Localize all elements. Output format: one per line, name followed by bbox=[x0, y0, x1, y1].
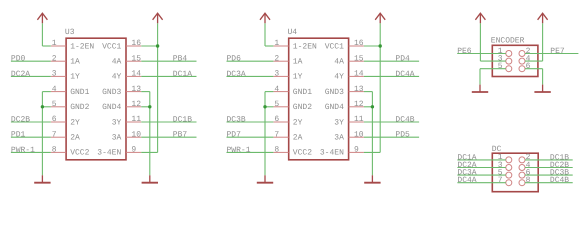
pin 6 circle (ENCODER) bbox=[519, 62, 531, 72]
pin 16 of U3 bbox=[126, 39, 141, 48]
ground symbol (ENCODER right) bbox=[534, 85, 550, 92]
svg-text:VCC2: VCC2 bbox=[293, 149, 312, 158]
pin 15 of U3 bbox=[126, 54, 141, 63]
svg-text:7: 7 bbox=[498, 176, 503, 185]
wire net PWR-1 bbox=[227, 151, 274, 153]
svg-text:VCC1: VCC1 bbox=[325, 42, 344, 51]
pin 1 of U3 bbox=[51, 39, 66, 48]
wire net DC1A bbox=[457, 159, 505, 161]
pin 16 of U4 bbox=[349, 39, 364, 48]
svg-text:ENCODER: ENCODER bbox=[491, 37, 525, 46]
svg-text:12: 12 bbox=[354, 100, 364, 109]
pin 11 of U4 bbox=[349, 115, 364, 124]
pin 5 circle (ENCODER) bbox=[498, 62, 512, 72]
svg-text:6: 6 bbox=[526, 62, 531, 71]
svg-text:GND1: GND1 bbox=[70, 88, 89, 97]
svg-text:1Y: 1Y bbox=[70, 73, 80, 82]
pin 6 circle (DC) bbox=[519, 168, 531, 178]
svg-text:10: 10 bbox=[354, 130, 364, 139]
svg-text:8: 8 bbox=[274, 146, 279, 155]
IC U4 body bbox=[289, 38, 349, 160]
ground symbol (U4 left) bbox=[257, 175, 273, 182]
pin 1 of U4 bbox=[273, 39, 288, 48]
IC U3 body bbox=[66, 38, 126, 160]
wire net DC4B bbox=[364, 121, 419, 123]
pin 6 of U4 bbox=[273, 115, 288, 124]
svg-text:11: 11 bbox=[354, 115, 364, 124]
svg-text:8: 8 bbox=[526, 176, 531, 185]
wire net PE6 bbox=[457, 53, 506, 55]
pin 2 circle (DC) bbox=[519, 153, 531, 163]
pin 11 of U3 bbox=[126, 115, 141, 124]
wire net DC2B bbox=[11, 121, 51, 123]
junction dot (U4 VCC1) bbox=[379, 44, 382, 47]
pin 4 of U4 bbox=[273, 85, 288, 94]
svg-text:4A: 4A bbox=[112, 58, 122, 67]
wire VCC to pin 1 (U4) bbox=[265, 45, 273, 47]
junction dot (U3 GND left) bbox=[41, 105, 44, 108]
wire GND vertical right (U3) bbox=[149, 92, 151, 176]
wire GND pin 5 (ENCODER) bbox=[480, 68, 506, 70]
svg-text:1-2EN: 1-2EN bbox=[293, 42, 317, 51]
svg-text:1A: 1A bbox=[70, 58, 80, 67]
pin 10 of U4 bbox=[349, 130, 364, 139]
svg-text:PWR-1: PWR-1 bbox=[11, 146, 35, 155]
wire GND vertical right (U4) bbox=[371, 92, 373, 176]
svg-text:PB4: PB4 bbox=[173, 55, 188, 64]
svg-text:1: 1 bbox=[274, 39, 279, 48]
svg-text:GND3: GND3 bbox=[102, 88, 121, 97]
svg-text:DC3B: DC3B bbox=[227, 115, 246, 124]
wire net PB7 bbox=[141, 136, 196, 138]
pin 5 of U4 bbox=[273, 100, 288, 109]
pin 3 circle (ENCODER) bbox=[498, 54, 512, 64]
wire GND pin 4 (U4) bbox=[265, 91, 273, 93]
wire net PD1 bbox=[11, 136, 51, 138]
svg-text:15: 15 bbox=[354, 54, 364, 63]
pin 5 circle (DC) bbox=[498, 168, 512, 178]
svg-text:3A: 3A bbox=[112, 134, 122, 143]
pin 13 of U4 bbox=[349, 85, 364, 94]
svg-text:4: 4 bbox=[52, 85, 57, 94]
svg-text:7: 7 bbox=[274, 130, 279, 139]
wire net DC1B bbox=[525, 159, 573, 161]
pin 1 circle (DC) bbox=[498, 153, 512, 163]
connector DC body bbox=[492, 153, 538, 192]
pin 2 of U4 bbox=[273, 54, 288, 63]
svg-text:14: 14 bbox=[131, 70, 141, 79]
svg-text:8: 8 bbox=[52, 146, 57, 155]
wire net DC1B bbox=[141, 121, 196, 123]
wire VCC (U4 pin16) bbox=[379, 23, 381, 46]
pin 7 of U4 bbox=[273, 130, 288, 139]
svg-text:6: 6 bbox=[52, 115, 57, 124]
pin 10 of U3 bbox=[126, 130, 141, 139]
svg-text:3: 3 bbox=[274, 70, 279, 79]
wire GND pin 4 (U3) bbox=[42, 91, 50, 93]
pin 7 of U3 bbox=[51, 130, 66, 139]
wire GND pin 13 (U3) bbox=[141, 91, 150, 93]
junction dot (U4 GND right) bbox=[371, 105, 374, 108]
wire net DC2A bbox=[457, 167, 505, 169]
svg-text:1-2EN: 1-2EN bbox=[70, 42, 94, 51]
svg-text:3Y: 3Y bbox=[334, 118, 344, 127]
pin 3 circle (DC) bbox=[498, 161, 512, 171]
ground symbol (U3 left) bbox=[34, 175, 50, 182]
wire net DC4B bbox=[525, 182, 573, 184]
svg-text:1: 1 bbox=[52, 39, 57, 48]
svg-text:VCC2: VCC2 bbox=[70, 149, 89, 158]
svg-text:DC2A: DC2A bbox=[11, 70, 30, 79]
wire net PD7 bbox=[227, 136, 274, 138]
wire VCC (U4 pin1) bbox=[264, 23, 266, 46]
svg-text:PE7: PE7 bbox=[550, 47, 565, 56]
wire net DC3A bbox=[457, 174, 505, 176]
svg-text:5: 5 bbox=[274, 100, 279, 109]
svg-text:16: 16 bbox=[354, 39, 364, 48]
svg-text:2Y: 2Y bbox=[70, 118, 80, 127]
wire net DC3B bbox=[525, 174, 573, 176]
svg-text:PE6: PE6 bbox=[457, 47, 472, 56]
wire GND vertical left (U4) bbox=[264, 92, 266, 176]
pin 4 circle (DC) bbox=[519, 161, 531, 171]
wire pin 16 (U4) bbox=[364, 45, 380, 47]
svg-text:PB7: PB7 bbox=[173, 131, 188, 140]
wire VCC vertical to pin 9 (U4) bbox=[379, 46, 381, 152]
wire net PWR-1 bbox=[11, 151, 51, 153]
svg-text:DC1A: DC1A bbox=[173, 70, 192, 79]
svg-text:GND1: GND1 bbox=[293, 88, 312, 97]
wire net DC3B bbox=[227, 121, 274, 123]
svg-text:3-4EN: 3-4EN bbox=[97, 149, 121, 158]
svg-text:PD5: PD5 bbox=[395, 131, 410, 140]
svg-text:4Y: 4Y bbox=[334, 73, 344, 82]
wire net PB4 bbox=[141, 60, 196, 62]
svg-text:PD1: PD1 bbox=[11, 131, 26, 140]
svg-text:GND2: GND2 bbox=[293, 103, 312, 112]
svg-text:4: 4 bbox=[274, 85, 279, 94]
wire GND pin 12 (U4) bbox=[364, 106, 373, 108]
svg-text:PD7: PD7 bbox=[227, 131, 242, 140]
pin 8 of U3 bbox=[51, 146, 66, 155]
svg-text:5: 5 bbox=[498, 62, 503, 71]
svg-text:10: 10 bbox=[131, 130, 141, 139]
svg-text:4Y: 4Y bbox=[112, 73, 122, 82]
wire net PD4 bbox=[364, 60, 419, 62]
svg-text:DC4A: DC4A bbox=[395, 70, 414, 79]
junction dot (U4 GND left) bbox=[263, 105, 266, 108]
svg-text:GND4: GND4 bbox=[102, 103, 121, 112]
svg-text:GND4: GND4 bbox=[325, 103, 344, 112]
svg-text:3-4EN: 3-4EN bbox=[320, 149, 344, 158]
svg-text:5: 5 bbox=[52, 100, 57, 109]
wire pin 9 (U3) bbox=[141, 151, 157, 153]
power VCC symbol (ENCODER pin3) bbox=[475, 13, 485, 23]
svg-text:3: 3 bbox=[52, 70, 57, 79]
wire GND vertical (ENCODER right) bbox=[542, 69, 544, 85]
svg-text:2Y: 2Y bbox=[293, 118, 303, 127]
power VCC symbol (U3 pin16) bbox=[153, 13, 163, 23]
svg-text:DC4B: DC4B bbox=[395, 115, 414, 124]
svg-text:PWR-1: PWR-1 bbox=[227, 146, 251, 155]
svg-text:13: 13 bbox=[131, 85, 141, 94]
wire VCC to pin 1 (U3) bbox=[42, 45, 50, 47]
wire net DC4A bbox=[364, 75, 419, 77]
svg-text:U3: U3 bbox=[65, 28, 75, 37]
wire GND pin 13 (U4) bbox=[364, 91, 373, 93]
svg-text:GND3: GND3 bbox=[325, 88, 344, 97]
wire net PD5 bbox=[364, 136, 419, 138]
svg-text:DC2B: DC2B bbox=[11, 115, 30, 124]
wire net DC2A bbox=[11, 75, 51, 77]
svg-text:DC1B: DC1B bbox=[173, 115, 192, 124]
pin 9 of U4 bbox=[349, 146, 364, 155]
svg-text:3Y: 3Y bbox=[112, 118, 122, 127]
svg-text:VCC1: VCC1 bbox=[102, 42, 121, 51]
power VCC symbol (U4 pin16) bbox=[375, 13, 385, 23]
pin 6 of U3 bbox=[51, 115, 66, 124]
pin 4 circle (ENCODER) bbox=[519, 54, 531, 64]
svg-text:3A: 3A bbox=[334, 134, 344, 143]
svg-text:6: 6 bbox=[274, 115, 279, 124]
svg-text:2: 2 bbox=[52, 54, 57, 63]
wire VCC (ENCODER pin3) bbox=[479, 23, 481, 61]
svg-text:1A: 1A bbox=[293, 58, 303, 67]
wire net PE7 bbox=[525, 53, 578, 55]
wire net DC1A bbox=[141, 75, 196, 77]
svg-text:4A: 4A bbox=[334, 58, 344, 67]
svg-text:7: 7 bbox=[52, 130, 57, 139]
svg-text:DC4A: DC4A bbox=[457, 176, 476, 185]
svg-text:GND2: GND2 bbox=[70, 103, 89, 112]
svg-text:PD0: PD0 bbox=[11, 55, 26, 64]
power VCC symbol (ENCODER pin4) bbox=[538, 13, 548, 23]
junction dot (U3 VCC1) bbox=[156, 44, 159, 47]
wire GND pin 6 (ENCODER) bbox=[525, 68, 543, 70]
wire VCC (ENCODER pin4) bbox=[542, 23, 544, 61]
svg-text:PD4: PD4 bbox=[395, 55, 410, 64]
pin 12 of U4 bbox=[349, 100, 364, 109]
pin 8 circle (DC) bbox=[519, 176, 531, 186]
svg-text:9: 9 bbox=[354, 146, 359, 155]
wire VCC to pin 3 (ENCODER) bbox=[480, 60, 505, 62]
pin 8 of U4 bbox=[273, 146, 288, 155]
svg-text:2A: 2A bbox=[70, 134, 80, 143]
connector ENCODER body bbox=[492, 45, 538, 76]
pin 15 of U4 bbox=[349, 54, 364, 63]
junction dot (U3 GND right) bbox=[148, 105, 151, 108]
pin 4 of U3 bbox=[51, 85, 66, 94]
pin 13 of U3 bbox=[126, 85, 141, 94]
pin 5 of U3 bbox=[51, 100, 66, 109]
svg-text:9: 9 bbox=[131, 146, 136, 155]
pin 2 of U3 bbox=[51, 54, 66, 63]
pin 2 circle (ENCODER) bbox=[519, 47, 531, 57]
pin 14 of U4 bbox=[349, 70, 364, 79]
wire net PD6 bbox=[227, 60, 274, 62]
svg-text:16: 16 bbox=[131, 39, 141, 48]
wire VCC (U3 pin16) bbox=[157, 23, 159, 46]
wire net DC2B bbox=[525, 167, 573, 169]
svg-text:DC4B: DC4B bbox=[550, 176, 569, 185]
ground symbol (U3 right) bbox=[142, 175, 158, 182]
wire pin 9 (U4) bbox=[364, 151, 380, 153]
wire GND pin 5 (U4) bbox=[265, 106, 273, 108]
wire GND vertical left (U3) bbox=[41, 92, 43, 176]
power VCC symbol (U3 pin1) bbox=[37, 13, 47, 23]
svg-text:14: 14 bbox=[354, 70, 364, 79]
svg-text:2: 2 bbox=[274, 54, 279, 63]
svg-text:13: 13 bbox=[354, 85, 364, 94]
wire net PD0 bbox=[11, 60, 51, 62]
svg-text:15: 15 bbox=[131, 54, 141, 63]
svg-text:11: 11 bbox=[131, 115, 141, 124]
svg-text:PD6: PD6 bbox=[227, 55, 242, 64]
svg-text:1Y: 1Y bbox=[293, 73, 303, 82]
pin 9 of U3 bbox=[126, 146, 141, 155]
power VCC symbol (U4 pin1) bbox=[260, 13, 270, 23]
wire net DC4A bbox=[457, 182, 505, 184]
wire net DC3A bbox=[227, 75, 274, 77]
wire VCC vertical to pin 9 (U3) bbox=[157, 46, 159, 152]
wire pin 16 (U3) bbox=[141, 45, 157, 47]
pin 3 of U4 bbox=[273, 70, 288, 79]
wire GND pin 5 (U3) bbox=[42, 106, 50, 108]
pin 7 circle (DC) bbox=[498, 176, 512, 186]
pin 1 circle (ENCODER) bbox=[498, 47, 512, 57]
svg-text:2A: 2A bbox=[293, 134, 303, 143]
wire GND pin 12 (U3) bbox=[141, 106, 150, 108]
pin 14 of U3 bbox=[126, 70, 141, 79]
pin 3 of U3 bbox=[51, 70, 66, 79]
pin 12 of U3 bbox=[126, 100, 141, 109]
svg-text:U4: U4 bbox=[288, 28, 298, 37]
svg-text:DC3A: DC3A bbox=[227, 70, 246, 79]
svg-text:12: 12 bbox=[131, 100, 141, 109]
wire GND vertical (ENCODER left) bbox=[479, 69, 481, 85]
wire VCC to pin 4 (ENCODER) bbox=[525, 60, 543, 62]
ground symbol (ENCODER left) bbox=[472, 85, 488, 92]
ground symbol (U4 right) bbox=[364, 175, 380, 182]
wire VCC (U3 pin1) bbox=[41, 23, 43, 46]
